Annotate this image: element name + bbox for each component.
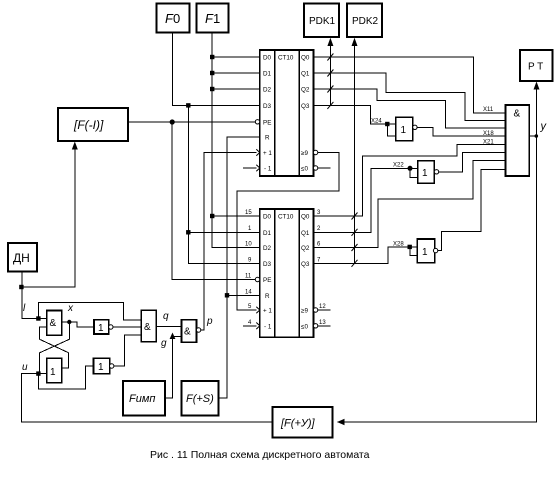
svg-text:F0: F0 — [165, 11, 180, 26]
svg-text:PDK1: PDK1 — [309, 16, 336, 27]
svg-text:Q2: Q2 — [301, 87, 310, 94]
svg-text:PE: PE — [263, 119, 271, 126]
svg-text:&: & — [184, 327, 191, 338]
svg-text:D1: D1 — [263, 230, 272, 237]
svg-text:15: 15 — [245, 210, 252, 216]
svg-text:12: 12 — [319, 304, 326, 310]
svg-text:PDK2: PDK2 — [352, 16, 379, 27]
svg-text:[F(+У)]: [F(+У)] — [280, 418, 316, 430]
svg-text:X28: X28 — [393, 241, 404, 247]
svg-text:X21: X21 — [483, 139, 494, 145]
svg-text:14: 14 — [245, 289, 252, 295]
svg-text:D2: D2 — [263, 245, 272, 252]
svg-text:F1: F1 — [205, 11, 220, 26]
svg-text:≥9: ≥9 — [301, 150, 308, 157]
svg-text:R: R — [265, 134, 270, 141]
svg-text:1: 1 — [422, 247, 428, 258]
svg-text:+ 1: + 1 — [263, 150, 272, 157]
svg-text:- 1: - 1 — [264, 166, 272, 173]
svg-text:Q3: Q3 — [301, 261, 310, 268]
svg-text:11: 11 — [245, 274, 252, 280]
svg-text:&: & — [50, 318, 57, 329]
svg-text:&: & — [144, 322, 151, 333]
svg-text:10: 10 — [245, 242, 252, 248]
svg-text:CT10: CT10 — [278, 55, 294, 62]
svg-text:X22: X22 — [393, 162, 404, 168]
svg-text:u: u — [22, 362, 28, 373]
svg-text:Q0: Q0 — [301, 214, 310, 221]
svg-text:1: 1 — [98, 362, 104, 373]
svg-text:≤0: ≤0 — [301, 166, 308, 173]
svg-text:X24: X24 — [371, 119, 382, 125]
svg-text:p: p — [206, 316, 213, 327]
svg-text:D2: D2 — [263, 87, 272, 94]
svg-text:1: 1 — [401, 125, 407, 136]
svg-text:D0: D0 — [263, 55, 272, 62]
svg-text:R: R — [265, 293, 270, 300]
svg-text:D1: D1 — [263, 71, 272, 78]
svg-text:Q2: Q2 — [301, 245, 310, 252]
svg-text:Q1: Q1 — [301, 71, 310, 78]
svg-text:Q0: Q0 — [301, 55, 310, 62]
svg-text:&: & — [514, 109, 521, 120]
svg-text:D3: D3 — [263, 261, 272, 268]
svg-text:Q1: Q1 — [301, 230, 310, 237]
svg-text:q: q — [163, 311, 169, 322]
svg-text:≤0: ≤0 — [301, 323, 308, 330]
svg-text:CT10: CT10 — [278, 214, 294, 221]
svg-text:1: 1 — [98, 323, 104, 334]
svg-text:Fимп: Fимп — [129, 393, 155, 405]
svg-text:Рис . 11 Полная схема дискрет: Рис . 11 Полная схема дискретного автома… — [150, 449, 370, 461]
svg-text:ДН: ДН — [13, 251, 30, 265]
svg-text:X11: X11 — [483, 107, 494, 113]
svg-text:≥9: ≥9 — [301, 308, 308, 315]
svg-text:P T: P T — [528, 62, 543, 73]
svg-text:x: x — [67, 303, 74, 314]
svg-text:1: 1 — [422, 168, 428, 179]
svg-text:X18: X18 — [483, 131, 494, 137]
svg-text:g: g — [161, 338, 167, 349]
svg-text:1: 1 — [50, 367, 56, 378]
svg-text:PE: PE — [263, 277, 271, 284]
svg-text:D3: D3 — [263, 103, 272, 110]
svg-text:- 1: - 1 — [264, 323, 272, 330]
svg-text:F(+S): F(+S) — [186, 393, 214, 405]
svg-text:[F(-I)]: [F(-I)] — [73, 118, 104, 132]
svg-text:Q3: Q3 — [301, 103, 310, 110]
svg-text:+ 1: + 1 — [263, 308, 272, 315]
svg-text:13: 13 — [319, 320, 326, 326]
svg-text:D0: D0 — [263, 214, 272, 221]
